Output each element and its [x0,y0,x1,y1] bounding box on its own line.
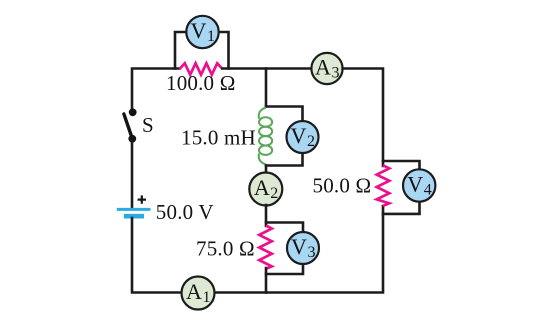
voltmeter V2 box wires [266,107,303,166]
ammeter A2 [249,173,282,206]
ammeter A3 [311,53,342,84]
ammeter A1 [182,277,215,310]
wire left-mid segment [131,142,134,208]
battery plus sign [138,195,146,203]
wire middle branch bottom [265,268,268,293]
svg-text:S: S [142,113,154,137]
voltmeter V1 box wires [175,32,229,69]
svg-text:A: A [315,55,331,80]
voltmeter V4 [403,169,435,201]
svg-text:4: 4 [424,182,432,199]
switch S bottom contact [128,135,136,143]
voltmeter V2 [287,121,319,153]
resistor 100.0 ohm [180,63,223,74]
svg-text:50.0 V: 50.0 V [156,200,214,224]
wire top-left segment [132,69,180,109]
svg-text:1: 1 [207,28,215,45]
svg-text:50.0 Ω: 50.0 Ω [313,174,372,198]
resistor 75.0 ohm [259,226,272,269]
svg-text:75.0 Ω: 75.0 Ω [196,237,255,261]
wire middle branch top [265,69,268,107]
svg-text:V: V [191,18,207,43]
svg-text:3: 3 [308,244,316,261]
wire top-right segment [343,69,383,167]
svg-text:100.0 Ω: 100.0 Ω [166,71,236,95]
svg-text:2: 2 [270,185,278,202]
wire bottom segment [215,206,383,293]
svg-text:V: V [407,172,423,197]
svg-text:15.0 mH: 15.0 mH [181,125,256,149]
resistor 50.0 ohm [377,165,390,206]
wire middle branch between V2 box and A2 [265,166,268,175]
switch S top contact [129,108,137,116]
wire left-bottom segment [132,218,181,293]
wire middle branch between A2 and V3 box [265,205,268,226]
battery 50.0 V negative plate [124,214,144,219]
switch S blade [124,114,132,139]
voltmeter V3 box wires [266,223,303,275]
inductor 15.0 mH coil [259,108,272,165]
wire top-middle segment [223,67,312,70]
battery 50.0 V positive plate [117,208,151,211]
svg-text:V: V [291,123,307,148]
voltmeter V4 box wires [383,161,420,214]
svg-text:A: A [254,175,270,200]
voltmeter V3 [287,232,319,264]
svg-text:V: V [291,234,307,259]
svg-text:A: A [186,279,202,304]
svg-text:1: 1 [203,289,211,306]
svg-text:2: 2 [307,133,315,150]
svg-text:3: 3 [332,65,340,82]
voltmeter V1 [186,16,218,48]
